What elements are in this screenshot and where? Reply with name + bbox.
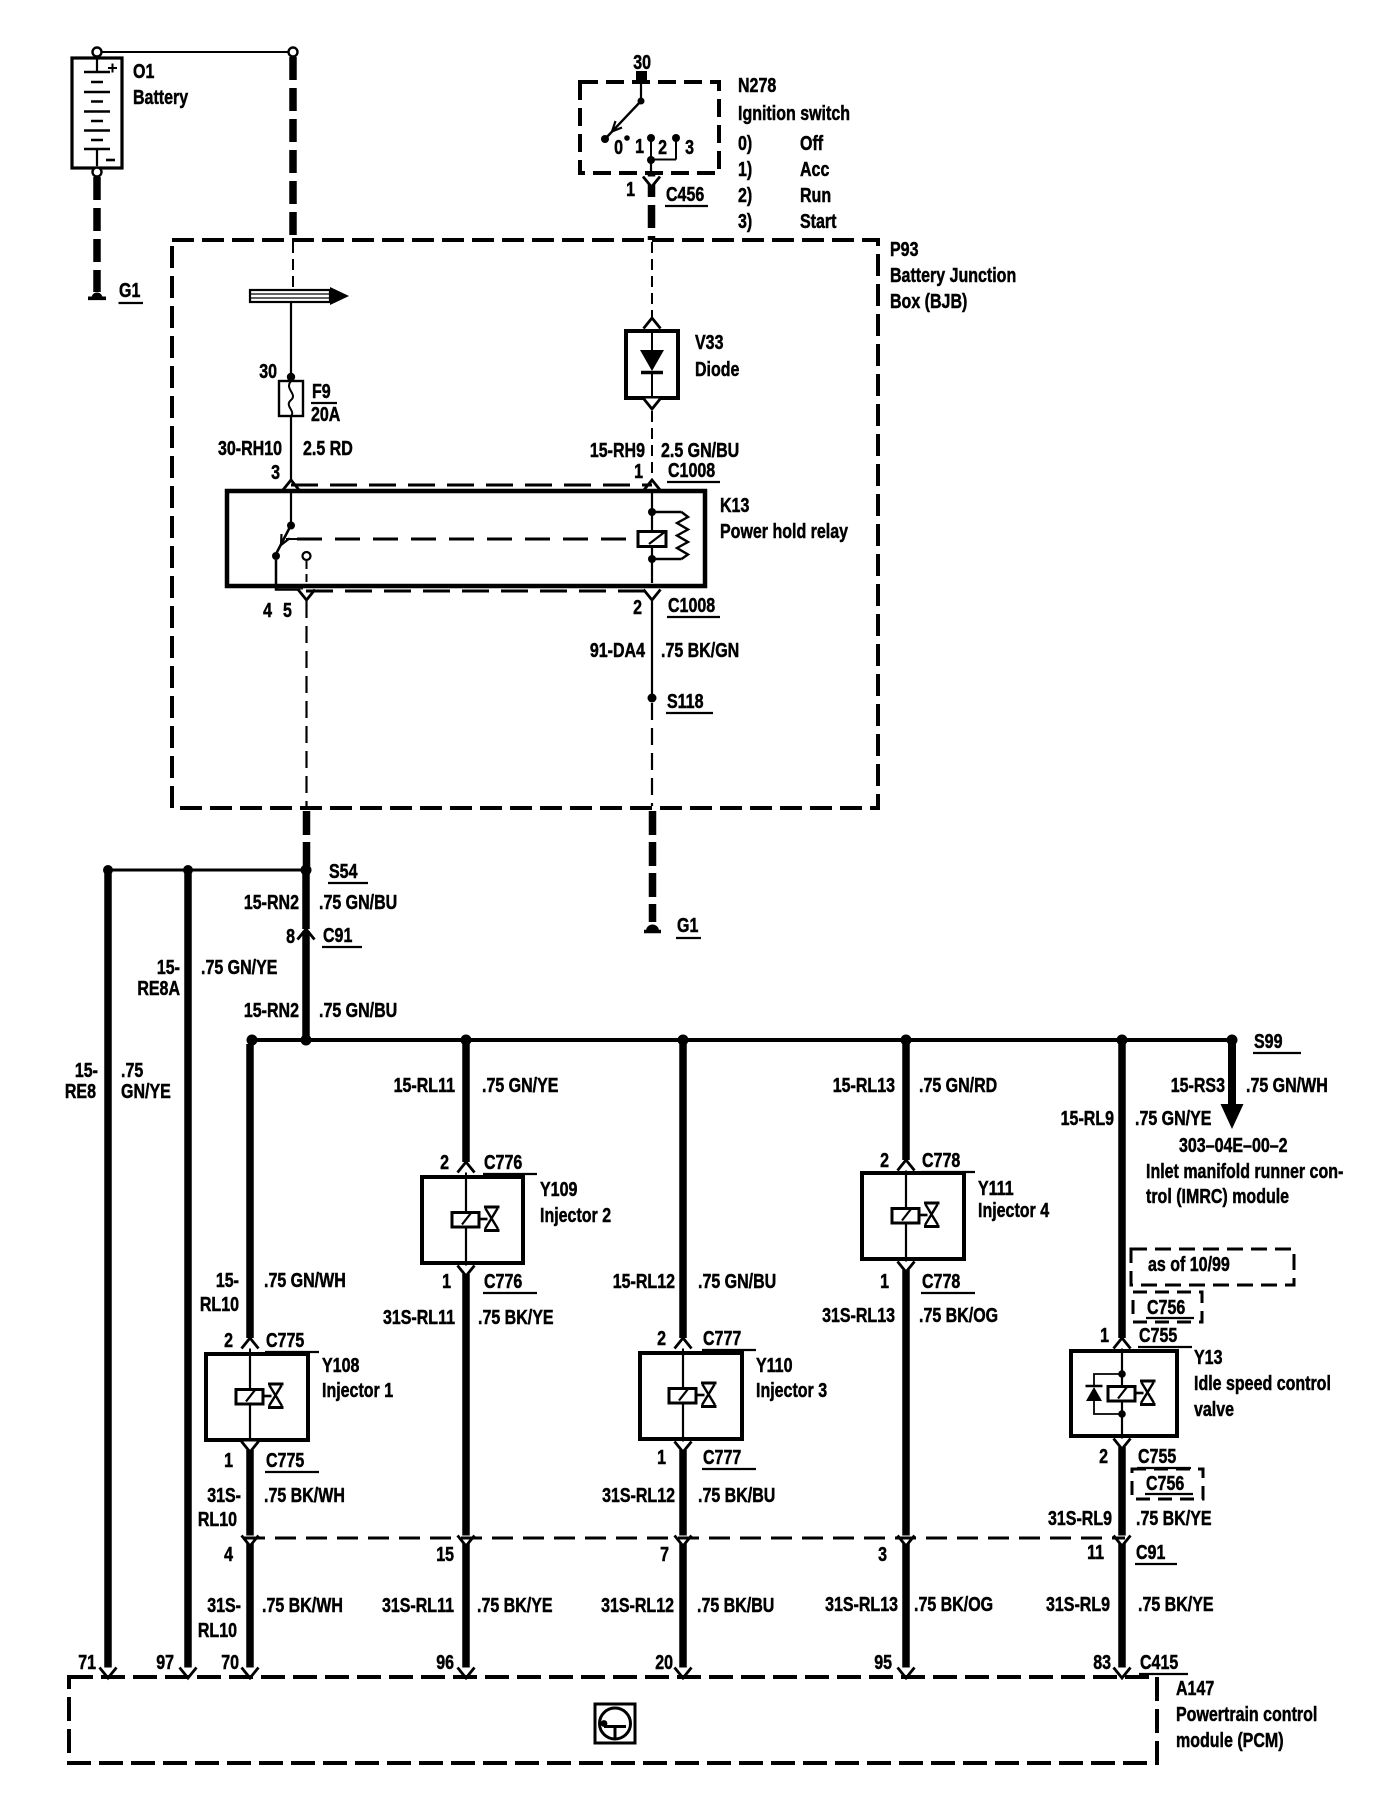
connector C775 pin 2	[242, 1338, 259, 1349]
splice S99	[1227, 1035, 1238, 1046]
svg-text:15-RL12: 15-RL12	[613, 1270, 675, 1292]
label Y13 idle speed control valve	[1194, 1346, 1331, 1420]
connector C776 pin 1	[465, 1263, 467, 1274]
svg-text:Y13: Y13	[1194, 1346, 1222, 1368]
connector C1008 dashed plane top	[291, 484, 652, 487]
svg-text:15-RL13: 15-RL13	[833, 1074, 895, 1096]
label A147 PCM	[1176, 1677, 1317, 1751]
wire Y13 to C91	[1118, 1447, 1126, 1672]
svg-text:Acc: Acc	[800, 158, 829, 180]
svg-text:1: 1	[634, 460, 643, 482]
svg-text:.75: .75	[121, 1059, 143, 1081]
ignition terminal 30	[636, 71, 647, 80]
svg-text:RE8A: RE8A	[137, 977, 180, 999]
wire feed to BJB	[289, 57, 297, 240]
svg-text:30-RH10: 30-RH10	[218, 437, 282, 459]
connector C778 pin 2	[898, 1160, 915, 1171]
wire BJB edge to S54	[303, 811, 311, 866]
svg-text:15-RH9: 15-RH9	[590, 439, 645, 461]
injector Y109	[422, 1177, 523, 1263]
svg-text:module (PCM): module (PCM)	[1176, 1729, 1284, 1751]
wire ignition output	[650, 160, 652, 174]
wire fuse to relay pin 3	[290, 416, 292, 480]
wire S118 to BJB edge	[651, 703, 653, 806]
diode V33	[626, 331, 678, 398]
svg-text:C778: C778	[922, 1149, 960, 1171]
svg-text:C775: C775	[266, 1449, 304, 1471]
svg-text:1: 1	[880, 1270, 889, 1292]
label wire 15-RL10 .75 GN/WH	[200, 1269, 346, 1315]
svg-text:20A: 20A	[311, 403, 340, 425]
note box as of 10/99	[1131, 1249, 1294, 1285]
svg-text:20: 20	[655, 1651, 673, 1673]
PCM module symbol	[595, 1704, 635, 1743]
svg-text:Y108: Y108	[322, 1354, 359, 1376]
svg-text:31S-RL13: 31S-RL13	[822, 1304, 895, 1326]
svg-text:2: 2	[440, 1151, 449, 1173]
power feed arrow symbol	[250, 287, 349, 305]
wire C91 to bus	[302, 931, 310, 1040]
label 15-RE8 .75 GN/YE	[65, 1059, 171, 1102]
svg-text:31S-: 31S-	[207, 1484, 241, 1506]
injector Y108	[206, 1354, 308, 1440]
svg-text:C91: C91	[323, 924, 352, 946]
label F9 20A	[311, 380, 340, 425]
svg-text:31S-RL11: 31S-RL11	[383, 1306, 455, 1328]
connector C456 pin 1	[643, 177, 660, 188]
svg-text:2: 2	[657, 1327, 666, 1349]
wire pins 4 5 to BJB edge	[305, 601, 307, 806]
svg-text:Injector 3: Injector 3	[756, 1379, 827, 1401]
svg-text:.75 GN/YE: .75 GN/YE	[482, 1074, 558, 1096]
svg-text:.75 BK/WH: .75 BK/WH	[264, 1484, 345, 1506]
svg-text:15-RL9: 15-RL9	[1061, 1107, 1114, 1129]
svg-text:2: 2	[658, 136, 667, 158]
svg-text:.75 BK/BU: .75 BK/BU	[698, 1484, 775, 1506]
svg-text:Diode: Diode	[695, 358, 739, 380]
svg-text:97: 97	[156, 1651, 174, 1673]
node feeder RE8A	[183, 865, 193, 875]
svg-text:S118: S118	[667, 690, 703, 712]
svg-text:3: 3	[878, 1543, 887, 1565]
bus node injector1	[247, 1035, 258, 1046]
svg-text:31S-: 31S-	[207, 1594, 241, 1616]
svg-text:15-RN2: 15-RN2	[244, 999, 299, 1021]
connector arrow pin 2	[644, 590, 661, 601]
wire bus to idle valve Y13	[1118, 1044, 1126, 1338]
svg-text:RL10: RL10	[198, 1508, 237, 1530]
svg-text:83: 83	[1093, 1651, 1111, 1673]
fuse F9	[279, 381, 303, 416]
svg-text:.75 BK/YE: .75 BK/YE	[1136, 1507, 1212, 1529]
svg-text:C778: C778	[922, 1270, 960, 1292]
ignition switch wiper arm	[605, 80, 645, 139]
svg-text:15-RN2: 15-RN2	[244, 891, 299, 913]
svg-text:C755: C755	[1138, 1445, 1176, 1467]
svg-text:Injector 2: Injector 2	[540, 1204, 611, 1226]
svg-text:5: 5	[283, 599, 292, 621]
svg-text:C776: C776	[484, 1151, 522, 1173]
svg-text:2.5 GN/BU: 2.5 GN/BU	[661, 439, 739, 461]
svg-text:96: 96	[436, 1651, 454, 1673]
svg-text:91-DA4: 91-DA4	[590, 639, 645, 661]
powertrain control module A147 box	[69, 1677, 1157, 1763]
wire battery positive feed	[97, 51, 293, 53]
battery junction box P93	[172, 240, 878, 808]
svg-text:303–04E–00–2: 303–04E–00–2	[1179, 1134, 1288, 1156]
wire Y111 to C91	[902, 1270, 910, 1672]
svg-text:1: 1	[657, 1446, 666, 1468]
svg-text:.75 BK/GN: .75 BK/GN	[661, 639, 739, 661]
wire battery negative to ground	[93, 177, 101, 292]
svg-text:RL10: RL10	[200, 1293, 239, 1315]
connector C91 dashed line	[244, 1537, 1125, 1540]
wire feeder 15-RE8A	[184, 870, 192, 1671]
relay coil	[648, 493, 688, 583]
bus node injector2	[461, 1035, 472, 1046]
svg-text:C456: C456	[666, 183, 704, 205]
ignition position contact 3	[672, 134, 680, 142]
svg-text:1: 1	[626, 178, 635, 200]
bus node idle valve	[1117, 1035, 1128, 1046]
svg-text:Injector 4: Injector 4	[978, 1199, 1049, 1221]
svg-text:C1008: C1008	[668, 594, 715, 616]
svg-text:3): 3)	[738, 210, 752, 232]
svg-text:2.5 RD: 2.5 RD	[303, 437, 353, 459]
svg-text:Off: Off	[800, 132, 824, 154]
wire bus to injector Y111	[902, 1044, 910, 1160]
connector C777 pin 1	[682, 1439, 684, 1450]
wire diode to relay pin 1	[651, 411, 653, 479]
relay contact pin 5	[303, 552, 311, 560]
svg-text:2: 2	[633, 596, 642, 618]
svg-text:31S-RL13: 31S-RL13	[825, 1593, 898, 1615]
wire S54 to C91	[302, 870, 310, 929]
connector arrow pin 3	[283, 480, 300, 491]
node feeder RE8	[103, 865, 113, 875]
svg-text:0): 0)	[738, 132, 752, 154]
svg-text:C777: C777	[703, 1446, 741, 1468]
svg-text:4: 4	[224, 1543, 233, 1565]
splice S54	[301, 865, 312, 876]
svg-text:2): 2)	[738, 184, 752, 206]
relay K13 box	[227, 491, 705, 586]
connector arrow diode top	[644, 318, 661, 329]
connector arrow pins 4 5	[298, 590, 315, 601]
svg-text:Power hold relay: Power hold relay	[720, 520, 848, 542]
bus node S54 feed	[301, 1035, 312, 1046]
wire contacts 1-3 strap	[651, 138, 676, 160]
svg-text:31S-RL12: 31S-RL12	[601, 1594, 674, 1616]
svg-text:15-: 15-	[75, 1059, 98, 1081]
svg-text:valve: valve	[1194, 1398, 1234, 1420]
wire bus to injector Y110	[679, 1044, 687, 1338]
svg-text:Powertrain control: Powertrain control	[1176, 1703, 1317, 1725]
svg-text:1: 1	[224, 1449, 233, 1471]
svg-text:Y110: Y110	[756, 1354, 792, 1376]
svg-text:Ignition switch: Ignition switch	[738, 102, 850, 124]
svg-text:Box (BJB): Box (BJB)	[890, 290, 967, 312]
svg-text:2: 2	[1099, 1445, 1108, 1467]
svg-text:15-RL11: 15-RL11	[394, 1074, 455, 1096]
wire Y110 to C91	[679, 1450, 687, 1672]
wire C456 to diode	[651, 242, 653, 318]
svg-text:30: 30	[633, 51, 651, 73]
connector C778 pin 1	[905, 1259, 907, 1270]
svg-text:G1: G1	[119, 279, 140, 301]
svg-text:4: 4	[263, 599, 272, 621]
svg-text:31S-RL9: 31S-RL9	[1048, 1507, 1112, 1529]
svg-text:GN/YE: GN/YE	[121, 1080, 171, 1102]
svg-text:.75 GN/BU: .75 GN/BU	[319, 999, 397, 1021]
node 30	[287, 373, 295, 381]
wire BJB to ground G1	[649, 811, 657, 922]
connector C91 pin 15	[458, 1536, 475, 1547]
svg-text:Inlet manifold runner con-: Inlet manifold runner con-	[1146, 1160, 1343, 1182]
wire bus to injector Y108	[246, 1044, 254, 1338]
ground G1 (battery)	[88, 293, 106, 299]
svg-text:.75 GN/YE: .75 GN/YE	[201, 956, 277, 978]
label wire 31S-RL10 .75 BK/WH	[198, 1484, 345, 1530]
wire feeder 15-RE8	[104, 870, 112, 1671]
ignition legend	[738, 74, 850, 232]
connector C776 pin 2	[458, 1162, 475, 1173]
svg-text:30: 30	[259, 360, 277, 382]
svg-text:G1: G1	[677, 914, 698, 936]
battery O1	[72, 58, 122, 168]
wire bus to injector Y109	[462, 1044, 470, 1162]
svg-text:31S-RL12: 31S-RL12	[602, 1484, 675, 1506]
svg-text:P93: P93	[890, 238, 918, 260]
node ignition output	[647, 156, 655, 164]
wire S99 to IMRC module	[1221, 1042, 1244, 1129]
svg-text:.75 GN/WH: .75 GN/WH	[264, 1269, 346, 1291]
ground G1 (right)	[644, 925, 661, 932]
svg-text:A147: A147	[1176, 1677, 1214, 1699]
svg-text:0: 0	[614, 136, 623, 158]
svg-text:S54: S54	[329, 860, 357, 882]
svg-text:.75 GN/RD: .75 GN/RD	[919, 1074, 997, 1096]
power bus wire	[252, 1038, 1232, 1042]
svg-text:15: 15	[436, 1543, 454, 1565]
svg-text:.75 GN/WH: .75 GN/WH	[1246, 1074, 1328, 1096]
connector C91 pin 8	[298, 929, 315, 940]
labels pins 4 5 2 C1008	[263, 594, 715, 621]
svg-text:95: 95	[874, 1651, 892, 1673]
connector C91 pin 3	[898, 1536, 915, 1547]
wire pin 2 to S118	[651, 601, 653, 698]
svg-text:C755: C755	[1139, 1324, 1177, 1346]
connector C775 pin 1	[249, 1440, 251, 1450]
svg-text:15-: 15-	[216, 1269, 239, 1291]
relay coil actuator	[638, 532, 666, 547]
node feed corner	[289, 48, 298, 57]
svg-text:C91: C91	[1136, 1541, 1165, 1563]
svg-text:.75 BK/YE: .75 BK/YE	[478, 1306, 554, 1328]
relay pin 4 wire	[276, 560, 303, 590]
relay switch	[272, 493, 297, 560]
wire Y109 to C91	[462, 1274, 470, 1672]
injector Y111	[862, 1173, 964, 1259]
svg-text:Run: Run	[800, 184, 831, 206]
svg-text:S99: S99	[1254, 1030, 1282, 1052]
injector Y110	[640, 1353, 742, 1439]
svg-text:Idle speed control: Idle speed control	[1194, 1372, 1331, 1394]
connector C91 pin 11	[1114, 1536, 1131, 1547]
svg-text:3: 3	[685, 136, 694, 158]
connector arrow diode bottom	[644, 399, 661, 410]
svg-text:3: 3	[271, 461, 280, 483]
svg-text:1: 1	[635, 135, 644, 157]
node battery positive terminal	[93, 48, 102, 57]
ignition switch N278 box	[580, 82, 719, 173]
svg-text:1: 1	[442, 1270, 451, 1292]
svg-text:.75 GN/YE: .75 GN/YE	[1135, 1107, 1211, 1129]
svg-text:C776: C776	[484, 1270, 522, 1292]
connector C91 pin 4	[242, 1536, 259, 1547]
svg-text:8: 8	[286, 925, 295, 947]
idle speed control valve Y13	[1071, 1351, 1177, 1436]
svg-text:70: 70	[221, 1651, 239, 1673]
svg-text:Y109: Y109	[540, 1178, 577, 1200]
svg-text:Battery: Battery	[133, 86, 188, 108]
position labels 0 1 2 3	[614, 135, 694, 158]
svg-text:15-RS3: 15-RS3	[1171, 1074, 1225, 1096]
connector C755 pin 2	[1121, 1436, 1123, 1447]
svg-text:.75 BK/YE: .75 BK/YE	[477, 1594, 553, 1616]
relay linkage dashed	[297, 538, 638, 541]
svg-text:C756: C756	[1146, 1472, 1184, 1494]
svg-text:71: 71	[78, 1651, 96, 1673]
svg-text:V33: V33	[695, 331, 723, 353]
svg-text:1): 1)	[738, 158, 752, 180]
node battery negative terminal	[93, 168, 102, 177]
label 15-RE8A .75 GN/YE	[137, 956, 277, 999]
connector C755 pin 1	[1114, 1338, 1131, 1349]
wire Y108 to C91	[246, 1450, 254, 1672]
bus node injector4	[901, 1035, 912, 1046]
svg-text:1: 1	[1100, 1324, 1109, 1346]
svg-text:31S-RL9: 31S-RL9	[1046, 1593, 1110, 1615]
svg-text:.75 GN/BU: .75 GN/BU	[698, 1270, 776, 1292]
ignition position contact 1	[647, 134, 655, 142]
svg-text:Battery Junction: Battery Junction	[890, 264, 1016, 286]
svg-text:.75 BK/OG: .75 BK/OG	[919, 1304, 998, 1326]
svg-text:2: 2	[880, 1149, 889, 1171]
svg-text:C777: C777	[703, 1327, 741, 1349]
label wire 31S-RL10 lower	[198, 1594, 343, 1641]
svg-text:31S-RL11: 31S-RL11	[382, 1594, 454, 1616]
connector C756 lower	[1132, 1469, 1203, 1499]
svg-text:.75 BK/BU: .75 BK/BU	[697, 1594, 774, 1616]
svg-text:N278: N278	[738, 74, 776, 96]
connector arrow pin 1	[644, 480, 661, 491]
svg-text:O1: O1	[133, 60, 154, 82]
svg-text:as of 10/99: as of 10/99	[1148, 1253, 1230, 1275]
svg-text:Injector 1: Injector 1	[322, 1379, 393, 1401]
connector C1008 dashed plane bottom	[306, 590, 652, 593]
connector C756 upper	[1133, 1292, 1202, 1322]
label IMRC module	[1146, 1134, 1343, 1207]
wire feed inside BJB	[292, 242, 294, 289]
label P93	[890, 238, 1016, 312]
svg-text:15-: 15-	[157, 956, 180, 978]
svg-text:.75 GN/BU: .75 GN/BU	[319, 891, 397, 913]
svg-text:.75 BK/WH: .75 BK/WH	[262, 1594, 343, 1616]
svg-text:7: 7	[660, 1543, 669, 1565]
svg-text:.75 BK/OG: .75 BK/OG	[914, 1593, 993, 1615]
splice S118	[648, 694, 657, 703]
svg-text:C415: C415	[1140, 1651, 1178, 1673]
svg-text:C756: C756	[1147, 1296, 1185, 1318]
connector C777 pin 2	[675, 1338, 692, 1349]
ignition position contact 0	[601, 135, 609, 143]
svg-text:11: 11	[1087, 1541, 1104, 1563]
svg-text:F9: F9	[312, 380, 331, 402]
svg-text:trol (IMRC) module: trol (IMRC) module	[1146, 1185, 1289, 1207]
wire S54 header	[108, 869, 306, 872]
svg-text:C775: C775	[266, 1329, 304, 1351]
svg-text:RL10: RL10	[198, 1619, 237, 1641]
bus node injector3	[678, 1035, 689, 1046]
svg-text:RE8: RE8	[65, 1080, 96, 1102]
svg-text:K13: K13	[720, 494, 749, 516]
wire feed to fuse	[290, 302, 292, 377]
connector C91 pin 7	[675, 1536, 692, 1547]
svg-text:2: 2	[224, 1329, 233, 1351]
svg-text:C1008: C1008	[668, 459, 715, 481]
svg-text:Y111: Y111	[978, 1177, 1014, 1199]
svg-text:Start: Start	[800, 210, 836, 232]
svg-text:.75 BK/YE: .75 BK/YE	[1138, 1593, 1214, 1615]
ignition detent dot	[624, 135, 630, 141]
